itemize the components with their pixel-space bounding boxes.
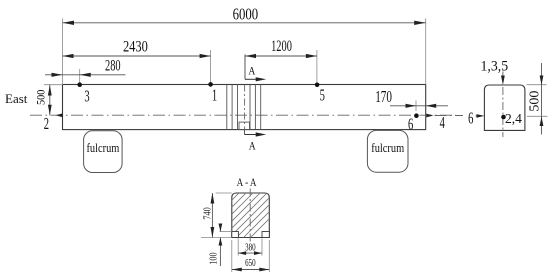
svg-text:500: 500 [528, 91, 543, 112]
dimension 500 right [527, 63, 548, 135]
svg-text:6000: 6000 [233, 6, 258, 24]
East label [5, 91, 28, 106]
dimension 740 [201, 193, 232, 238]
svg-text:East: East [5, 91, 28, 106]
fulcrum left box [84, 131, 123, 173]
svg-text:170: 170 [375, 88, 392, 107]
point 3 [77, 82, 89, 106]
dimension 6000 [63, 6, 426, 85]
beam centerline [30, 114, 456, 116]
svg-text:2430: 2430 [123, 38, 148, 56]
dimension 2430 [63, 38, 211, 84]
svg-text:1,3,5: 1,3,5 [481, 58, 509, 75]
section title A-A [237, 177, 257, 189]
end-view square [484, 85, 525, 130]
svg-text:500: 500 [35, 89, 48, 105]
point 6 [408, 113, 419, 134]
dimension 500 left [35, 85, 63, 116]
svg-text:2: 2 [44, 115, 49, 134]
section marker top A [245, 55, 266, 82]
svg-text:fulcrum: fulcrum [371, 141, 404, 155]
svg-text:100: 100 [208, 252, 220, 264]
svg-text:1: 1 [212, 86, 217, 105]
svg-text:A: A [249, 139, 256, 152]
svg-text:3: 3 [84, 87, 89, 106]
point 4 label [440, 114, 445, 133]
svg-text:A - A: A - A [237, 177, 257, 189]
svg-text:280: 280 [105, 56, 121, 74]
svg-text:6: 6 [468, 109, 473, 128]
svg-text:2,4: 2,4 [505, 111, 522, 126]
point 2,4 in end view [501, 111, 522, 126]
section marker bottom A [245, 130, 267, 153]
dimension 100 [208, 224, 232, 267]
point 4 arrow [426, 114, 433, 118]
section hatching [192, 180, 308, 240]
svg-text:740: 740 [201, 207, 213, 219]
end-view vertical centerline [502, 87, 504, 137]
label 1,3,5 leader [481, 58, 509, 85]
dimension 170 [375, 88, 448, 111]
label 6 leader in end view [435, 109, 485, 128]
dimension 650 [232, 240, 269, 272]
point 5 [315, 83, 325, 106]
dimension 280 [45, 56, 126, 85]
dimension 1200 [245, 37, 317, 85]
small rect at beam bottom center [239, 122, 250, 130]
svg-text:380: 380 [245, 241, 255, 253]
svg-text:6: 6 [408, 115, 413, 134]
section square [232, 193, 269, 238]
dimension 380 [238, 239, 262, 256]
section notch left [232, 232, 239, 238]
svg-text:fulcrum: fulcrum [86, 141, 119, 155]
svg-text:1200: 1200 [271, 37, 292, 55]
svg-text:A: A [248, 65, 255, 78]
point 2 arrow [56, 113, 63, 117]
svg-text:5: 5 [320, 86, 325, 105]
point 1 [208, 82, 217, 105]
section vertical centerline [249, 189, 251, 245]
beam mid vertical centerline [244, 85, 246, 130]
svg-text:650: 650 [245, 257, 255, 269]
loading plate lines [227, 85, 261, 130]
fulcrum right box [367, 130, 408, 172]
beam outline [63, 85, 426, 130]
section notch right [262, 232, 269, 238]
svg-text:4: 4 [440, 114, 445, 133]
point 2 label [44, 115, 49, 134]
